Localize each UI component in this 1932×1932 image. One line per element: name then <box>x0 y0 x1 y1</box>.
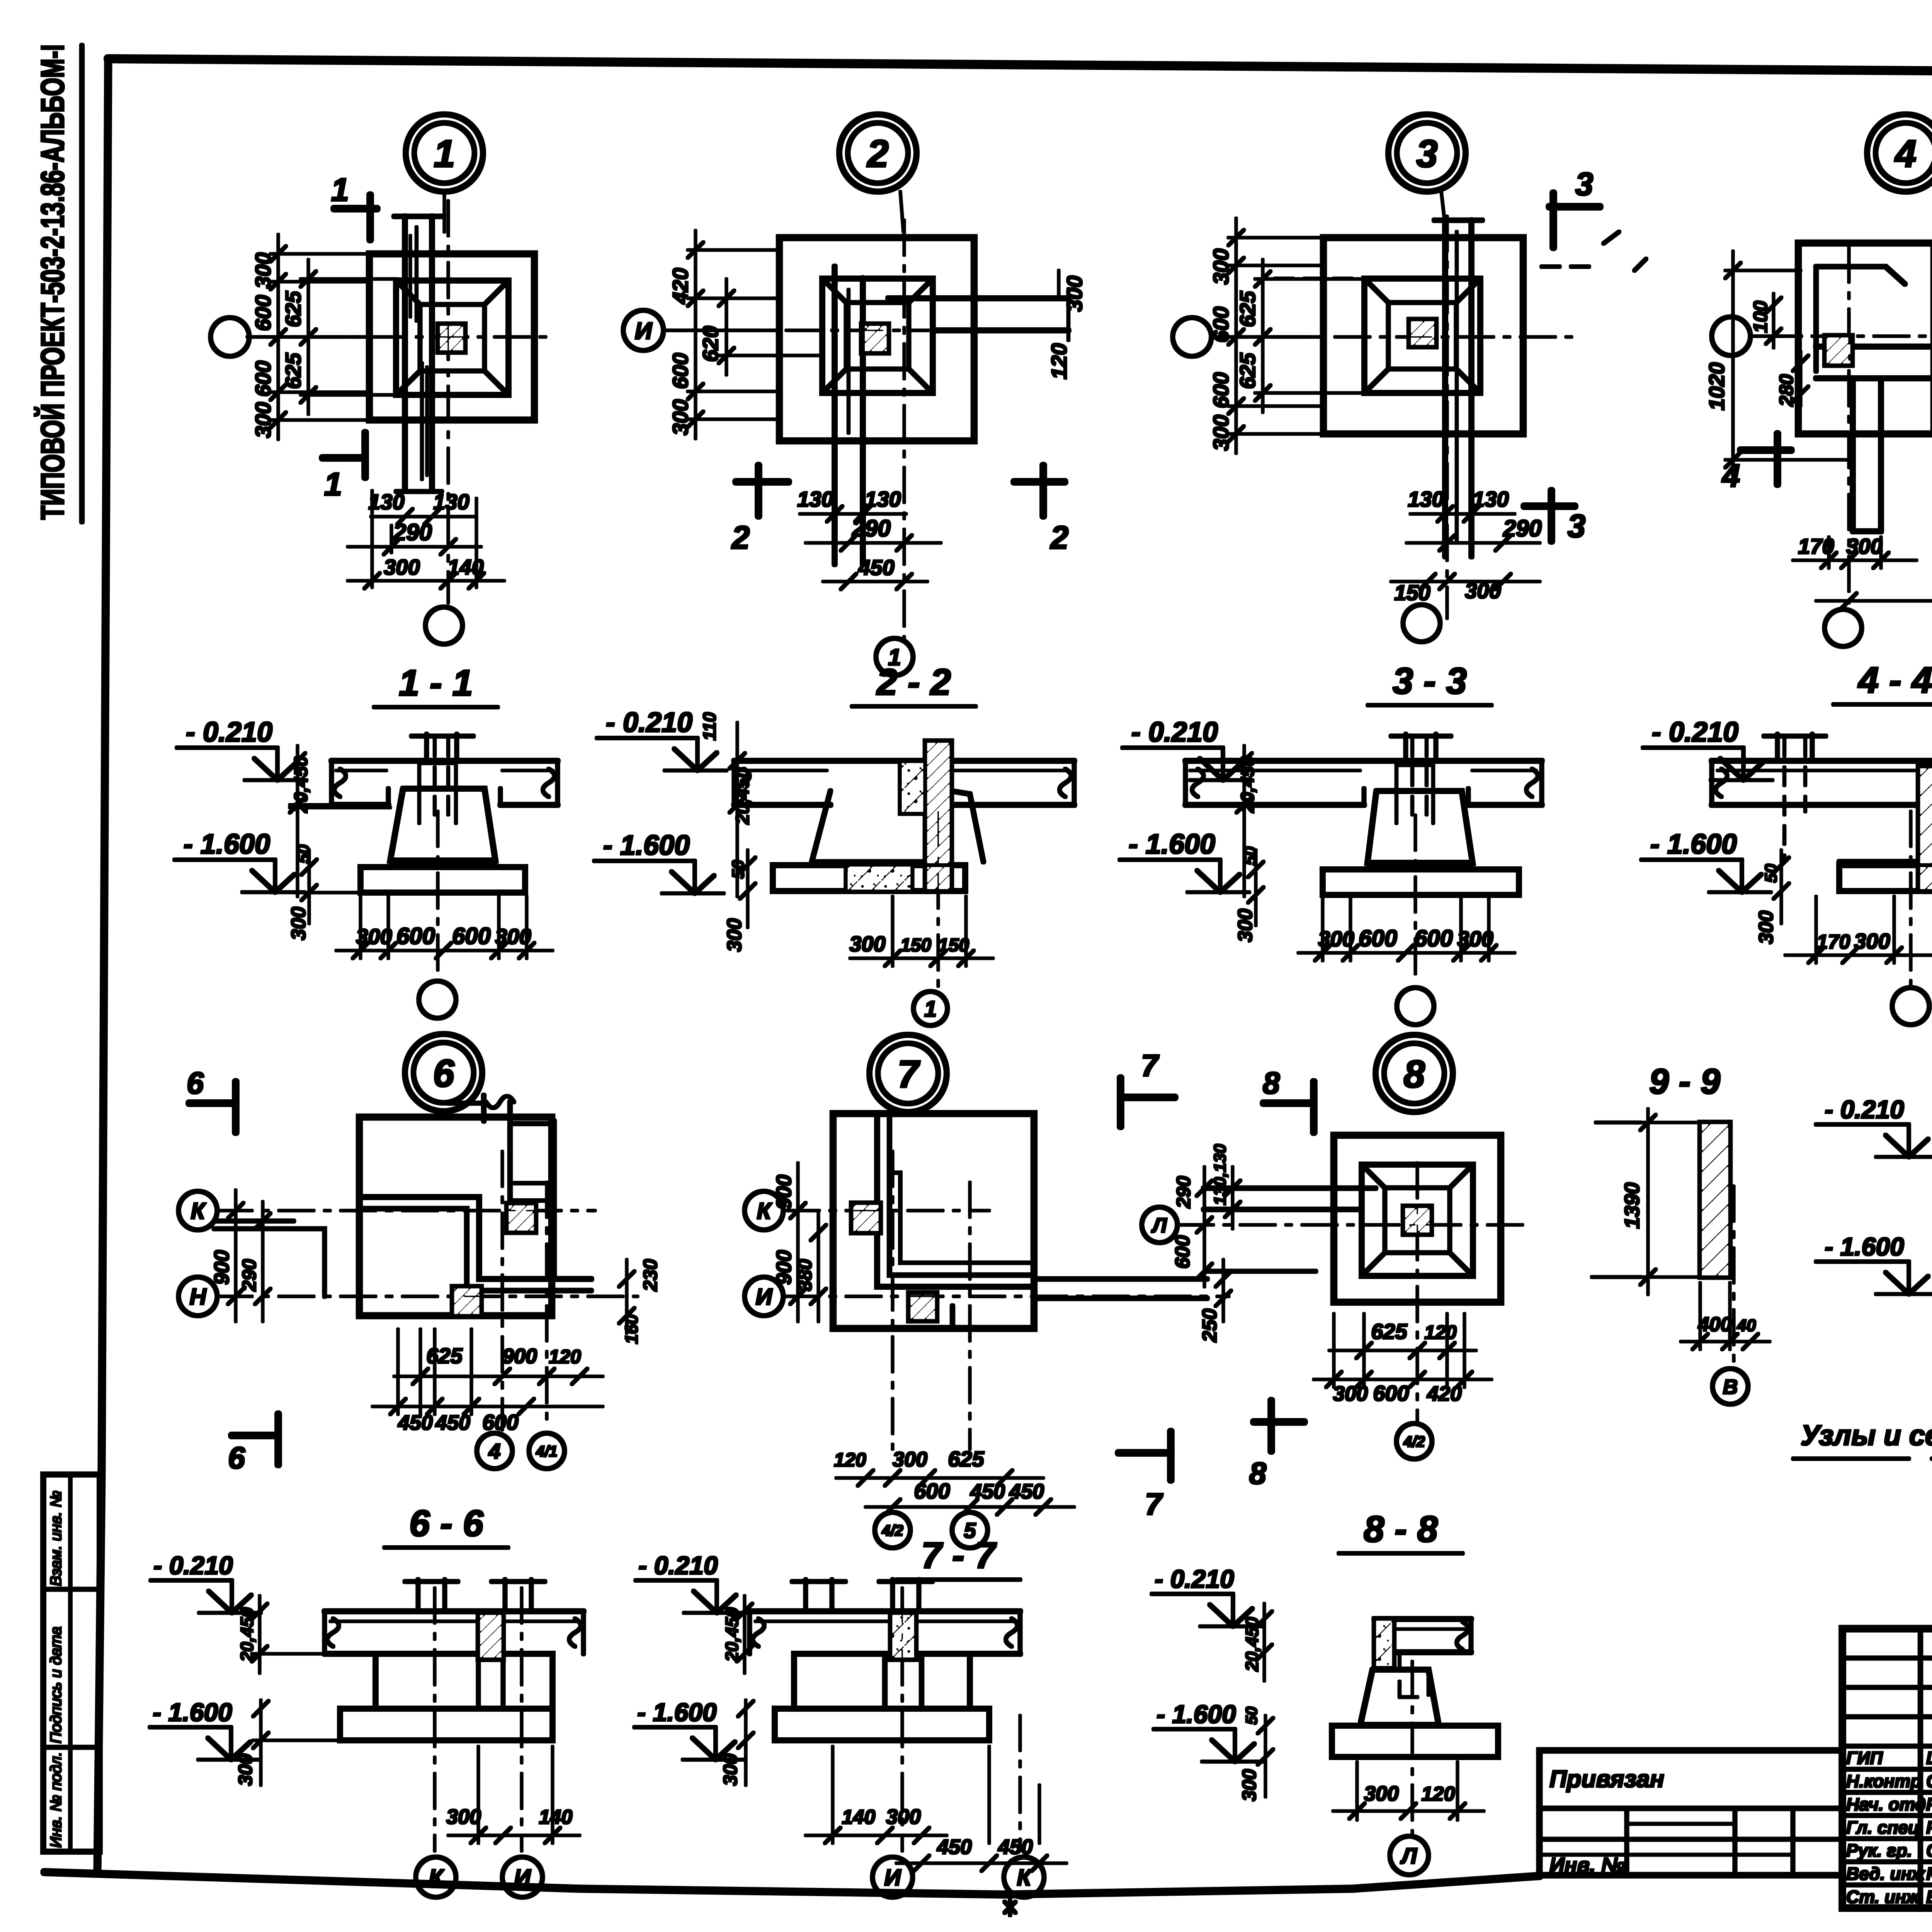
svg-text:Кастрюлев: Кастрюлев <box>1926 1864 1932 1884</box>
grid bubble 4 (detail 4) <box>1867 114 1932 192</box>
svg-text:7 - 7: 7 - 7 <box>921 1535 997 1576</box>
section 9-9 drawing <box>1592 1109 1730 1294</box>
axis circle В below section 9-9 <box>1713 1186 1748 1404</box>
svg-text:4: 4 <box>1894 132 1917 175</box>
svg-text:300: 300 <box>1062 276 1087 311</box>
svg-text:Нач. отд.: Нач. отд. <box>1846 1794 1931 1814</box>
svg-text:- 1.600: - 1.600 <box>153 1698 232 1726</box>
svg-text:600: 600 <box>1373 1381 1409 1405</box>
axis circle below section 4-4 <box>1892 811 1929 1025</box>
section 10-10 drawing <box>1816 1095 1932 1294</box>
svg-text:290: 290 <box>238 1259 260 1292</box>
dimensions below section 3-3 <box>1298 899 1515 961</box>
svg-text:К: К <box>1017 1865 1033 1891</box>
svg-text:Подпись и дата: Подпись и дата <box>48 1626 65 1743</box>
dimensions below detail 7 <box>834 1447 1074 1515</box>
svg-text:600: 600 <box>1172 1235 1194 1269</box>
dimensions below section 6-6 <box>446 1747 580 1843</box>
section title 9-9 <box>1649 1062 1720 1101</box>
svg-text:6: 6 <box>228 1440 245 1475</box>
svg-text:К: К <box>757 1198 773 1224</box>
svg-text:300: 300 <box>668 399 692 435</box>
svg-text:И: И <box>884 1865 901 1891</box>
axis circle below section 3-3 <box>1397 815 1434 1025</box>
svg-text:3: 3 <box>1575 166 1594 202</box>
elevation marks section 7-7 <box>634 1551 753 1786</box>
svg-text:450: 450 <box>998 1835 1033 1859</box>
axis circle below section 1-1 <box>419 811 456 1018</box>
svg-text:620: 620 <box>698 326 723 362</box>
dimensions below section 8-8 <box>1333 1762 1484 1820</box>
elevation marks section 4-4 <box>1641 717 1789 944</box>
svg-text:600: 600 <box>1359 925 1397 951</box>
привязан table <box>1539 1750 1842 1877</box>
svg-text:4: 4 <box>1721 457 1740 494</box>
svg-text:300: 300 <box>1238 1769 1260 1801</box>
svg-text:8: 8 <box>1403 1053 1425 1096</box>
dimension stack left of detail 3 <box>1209 218 1368 453</box>
plan detail 8 foundation pad <box>1204 1135 1501 1302</box>
svg-text:170: 170 <box>1817 931 1850 953</box>
plan detail 7 corner pad <box>833 1114 1207 1328</box>
section title 4-4 <box>1833 660 1932 704</box>
plan detail 2 foundation pad <box>779 238 1068 564</box>
plan detail 6 corner pad <box>214 1095 591 1316</box>
svg-text:4/2: 4/2 <box>881 1522 903 1539</box>
svg-text:300: 300 <box>849 932 885 956</box>
grid circles 4 and 4/1 below detail 6 <box>477 1433 565 1469</box>
grid bubble 6 (detail 6) <box>405 1034 482 1111</box>
grid bubble 1 (detail 1) <box>406 114 483 232</box>
title block signature table <box>1842 1629 1932 1908</box>
svg-text:Солей: Солей <box>1926 1840 1932 1861</box>
svg-text:Сагновская: Сагновская <box>1926 1771 1932 1791</box>
dimensions below detail 1 <box>348 490 504 588</box>
svg-text:4 - 4: 4 - 4 <box>1857 660 1932 701</box>
grid bubble 7 (detail 7) <box>869 1035 947 1112</box>
left margin stamp column <box>43 1475 100 1852</box>
svg-text:300: 300 <box>1755 911 1777 944</box>
right rotated dims of detail 6 <box>619 1259 661 1344</box>
svg-text:6 - 6: 6 - 6 <box>409 1503 484 1544</box>
axis circle left of detail 3 <box>1173 318 1323 356</box>
svg-text:290: 290 <box>852 515 891 541</box>
svg-text:1: 1 <box>434 132 455 175</box>
svg-text:600: 600 <box>396 923 435 949</box>
axis circle below detail 4 <box>1825 609 1862 646</box>
svg-text:- 0.210: - 0.210 <box>1652 717 1738 748</box>
svg-text:300: 300 <box>723 918 746 952</box>
grid circles 4/2 and 5 below detail 7 <box>875 1512 988 1548</box>
svg-text:4/1: 4/1 <box>536 1443 558 1460</box>
svg-text:290: 290 <box>1173 1176 1194 1209</box>
svg-text:600: 600 <box>1209 372 1233 408</box>
svg-text:600: 600 <box>1414 925 1453 951</box>
svg-text:Басионок: Басионок <box>1926 1887 1932 1907</box>
axis circle below detail 1 <box>425 607 463 644</box>
right rotated dim 250 of detail 7 <box>1199 1260 1231 1342</box>
svg-text:300: 300 <box>1209 248 1233 284</box>
section title 7-7 <box>896 1535 1020 1580</box>
svg-text:450: 450 <box>1009 1480 1044 1503</box>
svg-text:2: 2 <box>731 519 750 556</box>
vertical stamp ТИПОВОЙ ПРОЕКТ-503-2-13.86-АЛЬБОМ-I <box>34 44 82 522</box>
asterisk mark bottom center <box>1005 1900 1015 1915</box>
svg-text:900: 900 <box>772 1250 796 1285</box>
svg-text:И: И <box>514 1865 531 1891</box>
svg-text:380: 380 <box>794 1259 816 1291</box>
svg-text:Узлы и сечения 9-9 ÷ 11-11: Узлы и сечения 9-9 ÷ 11-11 замаркированы… <box>1801 1419 1932 1451</box>
svg-text:4: 4 <box>488 1439 500 1463</box>
svg-text:- 0.210: - 0.210 <box>606 707 692 738</box>
svg-text:- 1.600: - 1.600 <box>1825 1232 1904 1261</box>
svg-text:50: 50 <box>1242 1707 1260 1725</box>
svg-text:- 1.600: - 1.600 <box>1156 1700 1236 1728</box>
svg-text:625: 625 <box>281 352 305 389</box>
section 1-1 drawing <box>332 734 558 893</box>
axes of detail 7 <box>745 1151 1229 1449</box>
dimensions below section 4-4 <box>1785 896 1932 963</box>
svg-text:140: 140 <box>539 1806 573 1828</box>
dimension stack left of detail 2 <box>668 231 823 439</box>
dimensions below detail 2 <box>797 487 941 589</box>
svg-text:Гл. спец: Гл. спец <box>1846 1817 1920 1837</box>
svg-text:300: 300 <box>719 1753 741 1786</box>
svg-text:300: 300 <box>446 1805 481 1828</box>
svg-text:625: 625 <box>1371 1319 1407 1344</box>
svg-text:Взам. инв. №: Взам. инв. № <box>48 1491 65 1586</box>
left rotated dims of detail 6 <box>210 1190 270 1321</box>
svg-text:- 1.600: - 1.600 <box>1129 829 1215 860</box>
svg-text:625: 625 <box>1235 291 1260 327</box>
svg-text:150: 150 <box>900 935 931 956</box>
section 3-3 drawing <box>1185 734 1542 895</box>
svg-text:300: 300 <box>1846 534 1882 558</box>
svg-text:130: 130 <box>433 490 469 514</box>
dimensions below detail 4 <box>1793 534 1932 609</box>
svg-text:600: 600 <box>914 1479 950 1503</box>
svg-text:8 - 8: 8 - 8 <box>1364 1509 1438 1550</box>
axis circle left of detail 1 <box>211 318 369 356</box>
svg-text:625: 625 <box>948 1447 984 1471</box>
svg-text:100: 100 <box>1750 301 1771 333</box>
svg-text:3: 3 <box>1568 508 1586 544</box>
section title 6-6 <box>384 1503 508 1548</box>
axis circle И left of detail 2 <box>623 310 779 350</box>
dimensions below detail 6 <box>372 1329 603 1434</box>
axes of detail 8 <box>1179 1163 1530 1422</box>
svg-text:- 0.210: - 0.210 <box>1131 717 1218 748</box>
svg-text:140: 140 <box>842 1806 876 1828</box>
svg-text:Инв. № подл.: Инв. № подл. <box>48 1752 65 1848</box>
svg-text:625: 625 <box>426 1344 463 1368</box>
svg-text:300: 300 <box>1209 415 1233 451</box>
svg-text:250: 250 <box>1199 1309 1221 1343</box>
svg-text:110: 110 <box>699 712 719 741</box>
svg-text:600: 600 <box>1209 306 1233 342</box>
elevation marks section 1-1 <box>175 717 390 940</box>
svg-text:К: К <box>191 1198 207 1224</box>
axis circle left of detail 4 <box>1712 317 1798 355</box>
plan detail 4 foundation pad with T-beam <box>1798 243 1932 531</box>
axis circle 1 below detail 2 <box>876 638 913 675</box>
svg-text:130: 130 <box>368 490 404 514</box>
rotated dims at right beam end of detail 2 <box>1047 270 1087 379</box>
svg-text:290: 290 <box>393 519 432 545</box>
svg-text:Л: Л <box>1400 1844 1417 1869</box>
svg-text:130: 130 <box>1473 487 1509 511</box>
svg-text:300: 300 <box>1234 909 1257 942</box>
svg-text:300: 300 <box>893 1448 927 1471</box>
svg-text:- 0.210: - 0.210 <box>1155 1565 1234 1593</box>
svg-text:8: 8 <box>1249 1456 1267 1490</box>
svg-text:300: 300 <box>287 907 310 940</box>
section cut marks 1 <box>323 172 377 502</box>
svg-text:900: 900 <box>772 1175 796 1209</box>
svg-text:Вед. инж: Вед. инж <box>1846 1864 1925 1884</box>
svg-text:300: 300 <box>235 1753 256 1786</box>
svg-text:450: 450 <box>937 1835 972 1859</box>
axis circle Л left of detail 8 <box>1142 1207 1204 1243</box>
svg-text:Н: Н <box>189 1284 207 1310</box>
svg-text:2 - 2: 2 - 2 <box>876 662 951 703</box>
axes of detail 6 <box>179 1151 638 1430</box>
svg-text:130: 130 <box>865 487 901 511</box>
centerlines detail 4 <box>1750 247 1932 603</box>
dimensions below section 1-1 <box>336 896 553 958</box>
svg-text:420: 420 <box>1427 1382 1462 1405</box>
svg-text:120: 120 <box>1422 1783 1455 1805</box>
centerlines detail 2 <box>663 220 1039 638</box>
svg-text:300: 300 <box>251 252 275 288</box>
section title 1-1 <box>374 662 498 707</box>
title block main frame <box>1842 1629 1932 1908</box>
dimension stack left of detail 1 <box>251 235 398 439</box>
svg-text:- 0.210: - 0.210 <box>186 717 272 748</box>
svg-text:- 0.210: - 0.210 <box>1825 1095 1904 1124</box>
svg-text:Рук. гр.: Рук. гр. <box>1846 1840 1912 1861</box>
grid bubble 2 (detail 2) <box>839 114 917 232</box>
centerlines detail 3 <box>1211 216 1580 618</box>
section cut marks 4 <box>1721 434 1932 494</box>
svg-text:3 - 3: 3 - 3 <box>1393 660 1467 702</box>
axis circle 1 below section 2-2 <box>913 811 947 1026</box>
svg-text:Шульгин: Шульгин <box>1926 1748 1932 1768</box>
section cut marks 6 <box>187 1066 278 1475</box>
axis circle below detail 3 <box>1403 605 1440 642</box>
svg-text:150: 150 <box>938 935 969 956</box>
grid circle 4/2 below detail 8 <box>1396 1423 1432 1459</box>
dimensions below section 9-9 <box>1681 1283 1770 1349</box>
svg-text:600: 600 <box>668 353 692 389</box>
svg-text:150: 150 <box>1394 580 1430 605</box>
svg-text:420: 420 <box>668 268 692 304</box>
svg-text:300: 300 <box>251 402 275 438</box>
grid bubble 8 (detail 8) <box>1376 1035 1453 1112</box>
svg-text:450: 450 <box>435 1411 470 1434</box>
section 4-4 drawing <box>1712 734 1932 908</box>
svg-text:300: 300 <box>1364 1782 1399 1805</box>
svg-text:В: В <box>1723 1375 1738 1398</box>
svg-text:600: 600 <box>251 361 275 396</box>
dimensions below section 7-7 <box>806 1747 1066 1871</box>
svg-text:- 1.600: - 1.600 <box>184 829 270 860</box>
svg-text:20,450: 20,450 <box>733 767 753 825</box>
svg-text:1 - 1: 1 - 1 <box>399 662 473 704</box>
left rotated dims of detail 8 <box>1172 1144 1240 1287</box>
svg-text:2: 2 <box>866 132 889 175</box>
elevation marks section 6-6 <box>150 1551 344 1786</box>
svg-text:- 0.210: - 0.210 <box>638 1551 718 1580</box>
svg-text:300: 300 <box>384 555 420 579</box>
svg-text:9 - 9: 9 - 9 <box>1649 1062 1720 1101</box>
svg-text:120: 120 <box>1424 1321 1457 1343</box>
axis circles К and И below section 6-6 <box>416 1588 543 1897</box>
svg-text:8: 8 <box>1263 1066 1280 1100</box>
svg-text:1: 1 <box>324 466 342 502</box>
svg-text:7: 7 <box>1145 1487 1163 1521</box>
svg-text:4/2: 4/2 <box>1403 1433 1425 1450</box>
svg-text:140: 140 <box>447 555 483 579</box>
svg-text:И: И <box>755 1284 773 1310</box>
svg-text:450: 450 <box>970 1480 1005 1503</box>
svg-text:120: 120 <box>549 1346 581 1367</box>
svg-text:7: 7 <box>897 1053 920 1096</box>
svg-text:50: 50 <box>1762 864 1781 883</box>
centerlines detail 1 <box>247 201 549 603</box>
section title 2-2 <box>852 662 976 706</box>
section 7-7 drawing <box>750 1580 1020 1740</box>
svg-text:40: 40 <box>1737 1316 1756 1335</box>
svg-text:- 1.600: - 1.600 <box>603 830 690 861</box>
svg-text:Розенблат: Розенблат <box>1926 1817 1932 1837</box>
svg-text:К: К <box>429 1865 445 1891</box>
svg-text:ТИПОВОЙ ПРОЕКТ-503-2-13.86-АЛ: ТИПОВОЙ ПРОЕКТ-503-2-13.86-АЛЬБОМ-I <box>34 44 71 520</box>
elevation marks section 3-3 <box>1120 717 1264 942</box>
svg-text:900: 900 <box>210 1250 233 1285</box>
grid bubble 3 (detail 3) <box>1388 114 1466 232</box>
svg-text:130: 130 <box>1408 487 1444 511</box>
svg-text:1390: 1390 <box>1621 1182 1644 1229</box>
svg-text:- 0.210: - 0.210 <box>153 1551 233 1580</box>
svg-text:400: 400 <box>1698 1313 1732 1336</box>
dimensions below section 2-2 <box>849 896 993 966</box>
left rotated dims of detail 7 <box>772 1163 826 1321</box>
axis circle Л below section 8-8 <box>1390 1662 1429 1875</box>
svg-text:450: 450 <box>398 1411 433 1434</box>
section cut marks 3 <box>1524 166 1646 544</box>
axis circles И and К below section 7-7 <box>872 1588 1044 1897</box>
svg-text:1020: 1020 <box>1704 362 1729 411</box>
svg-text:120: 120 <box>834 1449 866 1471</box>
svg-text:Н.контр: Н.контр <box>1846 1771 1921 1791</box>
dimension 1020 left of detail 4 <box>1704 251 1851 479</box>
svg-text:600: 600 <box>452 923 491 949</box>
svg-text:6: 6 <box>433 1052 455 1095</box>
svg-text:130: 130 <box>797 487 833 511</box>
svg-text:1: 1 <box>924 997 937 1022</box>
section 8-8 drawing <box>1332 1619 1498 1757</box>
svg-text:ГИП: ГИП <box>1846 1748 1883 1768</box>
section cut marks 7 <box>1119 1048 1175 1521</box>
svg-text:1: 1 <box>331 172 349 208</box>
svg-text:- 1.600: - 1.600 <box>637 1698 717 1726</box>
svg-text:230: 230 <box>639 1259 661 1292</box>
svg-text:600: 600 <box>251 295 275 331</box>
svg-text:450: 450 <box>858 555 894 580</box>
svg-text:625: 625 <box>281 291 305 327</box>
svg-text:Инв. №: Инв. № <box>1549 1854 1625 1877</box>
svg-text:120: 120 <box>1047 343 1071 379</box>
svg-text:900: 900 <box>502 1345 537 1368</box>
dimensions below detail 8 <box>1314 1314 1492 1405</box>
svg-text:290: 290 <box>1503 515 1542 541</box>
svg-text:Ст. инж: Ст. инж <box>1846 1887 1920 1907</box>
elevation marks section 2-2 <box>594 707 755 952</box>
svg-text:Привязан: Привязан <box>1549 1766 1664 1793</box>
dimensions below detail 3 <box>1391 487 1542 605</box>
section title 8-8 <box>1339 1509 1463 1553</box>
section 2-2 drawing <box>734 741 1074 891</box>
svg-text:300: 300 <box>1854 929 1890 953</box>
svg-text:3: 3 <box>1416 132 1438 175</box>
note: узлы и сечения 9-9 - 11-11 замаркированы на листе 2 <box>1793 1419 1932 1459</box>
svg-text:300: 300 <box>1333 1382 1368 1405</box>
svg-text:7: 7 <box>1141 1048 1160 1083</box>
section cut marks 2 <box>731 466 1069 556</box>
section cut marks 8 <box>1249 1066 1314 1490</box>
svg-text:600: 600 <box>482 1410 518 1434</box>
svg-text:300: 300 <box>1465 578 1501 603</box>
elevation marks section 8-8 <box>1152 1565 1273 1801</box>
svg-text:Рубан: Рубан <box>1926 1794 1932 1814</box>
plan detail 3 foundation pad <box>1275 220 1523 556</box>
plan detail 1 foundation pad <box>369 216 534 492</box>
svg-text:6: 6 <box>187 1066 204 1100</box>
svg-text:Л: Л <box>1151 1214 1167 1237</box>
svg-text:И: И <box>635 318 653 344</box>
section 6-6 drawing <box>325 1580 583 1740</box>
svg-text:- 1.600: - 1.600 <box>1650 829 1737 860</box>
svg-text:625: 625 <box>1235 352 1260 389</box>
section title 3-3 <box>1368 660 1492 705</box>
svg-text:2: 2 <box>1050 519 1069 556</box>
